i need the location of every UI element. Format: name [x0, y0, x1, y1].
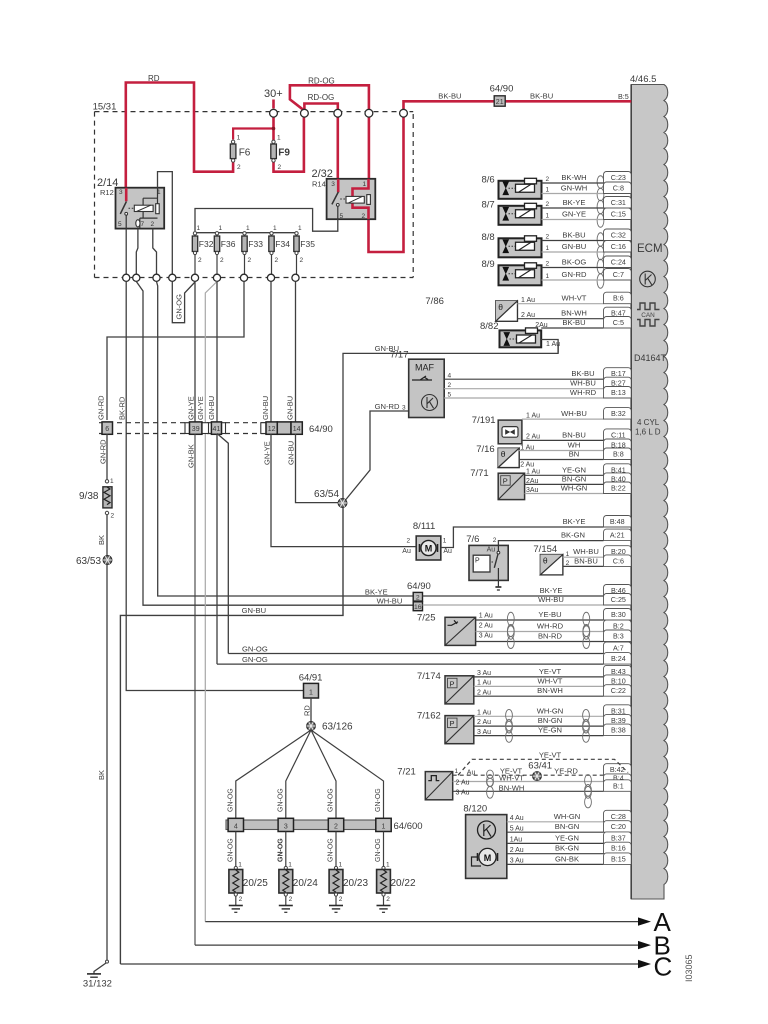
svg-text:BK-GN: BK-GN [561, 531, 585, 540]
svg-text:Au: Au [467, 770, 476, 777]
svg-text:MAF: MAF [415, 363, 435, 373]
wire YE-GN to ECM pin B:37 [507, 842, 604, 844]
wire GN-YE pin12 to 8/111 [271, 434, 416, 547]
wire YE-BU to ECM pin B:30 [476, 619, 604, 621]
svg-text:2: 2 [289, 896, 293, 903]
svg-text:GN-RD: GN-RD [562, 270, 587, 279]
svg-text:1: 1 [157, 189, 161, 196]
svg-text:63/126: 63/126 [322, 722, 353, 733]
svg-text:5: 5 [448, 391, 452, 398]
wire GN-OG to ECM pin A:7 [228, 653, 603, 655]
svg-text:GN-BU: GN-BU [242, 606, 266, 615]
svg-text:7/17: 7/17 [390, 350, 409, 361]
svg-text:BK-BU: BK-BU [530, 92, 553, 101]
svg-text:7/71: 7/71 [470, 468, 489, 479]
svg-text:WH-VT: WH-VT [499, 774, 524, 783]
svg-text:7/6: 7/6 [466, 534, 479, 545]
svg-text:2 Au: 2 Au [477, 719, 491, 726]
svg-text:1 Au: 1 Au [546, 341, 560, 348]
wire WH-BU to ECM pin B:32 [522, 418, 604, 420]
svg-text:7/154: 7/154 [533, 544, 557, 555]
svg-text:B:3: B:3 [613, 631, 624, 640]
svg-text:C:5: C:5 [613, 318, 624, 327]
svg-text:A:7: A:7 [613, 643, 624, 652]
svg-text:2Au: 2Au [535, 322, 548, 329]
svg-text:WH-BU: WH-BU [570, 379, 596, 388]
twisted pair marker [583, 709, 590, 733]
wire A output [205, 921, 638, 923]
svg-text:7/21: 7/21 [397, 767, 416, 778]
svg-text:2: 2 [546, 201, 550, 208]
svg-text:2: 2 [448, 382, 452, 389]
svg-text:GN-OG: GN-OG [227, 838, 234, 862]
wire relay 2/32 pin2 output to ECM B:5 [369, 117, 404, 253]
svg-text:31/132: 31/132 [83, 979, 112, 990]
twisted pair marker [585, 784, 592, 807]
wire C output [120, 963, 638, 965]
wire WH-GN to ECM pin B:22 [525, 493, 604, 495]
relay 2/14 pin7 bushing [136, 220, 140, 227]
fuse F36 [215, 232, 218, 235]
svg-text:2: 2 [362, 213, 366, 220]
svg-text:BN-WH: BN-WH [561, 309, 587, 318]
MAF flap icon [412, 376, 432, 380]
svg-text:GN-OG: GN-OG [328, 838, 335, 862]
svg-text:2: 2 [111, 513, 115, 520]
fuse supply bus [195, 232, 297, 234]
svg-text:YE-VT: YE-VT [539, 667, 562, 676]
ECM 4/46.5 module body [631, 85, 668, 900]
svg-text:CAN: CAN [641, 312, 655, 319]
svg-text:GN-BU: GN-BU [562, 242, 586, 251]
wire 2/14 pin7 down [136, 229, 138, 274]
connector bar 64/90 [99, 422, 303, 424]
svg-text:F34: F34 [275, 239, 290, 249]
svg-text:BK-BU: BK-BU [562, 231, 585, 240]
wire BN-WH to ECM pin B:1 [453, 790, 604, 792]
svg-text:BK-YE: BK-YE [563, 198, 586, 207]
svg-text:BN-WH: BN-WH [537, 686, 563, 695]
wire GN-OG jumper loop [172, 282, 195, 323]
svg-text:BK-YE: BK-YE [365, 588, 388, 597]
svg-text:GN-OG: GN-OG [175, 294, 184, 320]
svg-text:2: 2 [386, 896, 390, 903]
wire WH-RD to ECM pin B:2 [476, 631, 604, 633]
svg-text:RD-OG: RD-OG [308, 93, 335, 102]
svg-text:P: P [503, 477, 508, 486]
svg-text:2: 2 [300, 257, 304, 264]
svg-text:GN-YE: GN-YE [562, 210, 586, 219]
svg-text:2: 2 [546, 261, 550, 268]
wire col B BK-RD to 64/91 [126, 282, 303, 691]
twisted pair marker [583, 612, 590, 639]
wire WH-BU to ECM pin C:25 [423, 604, 604, 606]
svg-text:1 Au: 1 Au [521, 297, 535, 304]
twisted pair marker [597, 259, 604, 288]
svg-text:Au: Au [402, 548, 411, 555]
wire BN-GN to ECM pin B:39 [474, 725, 604, 727]
svg-text:BK-YE: BK-YE [540, 586, 563, 595]
wire pin41 straight GN-OG to B:24 [216, 434, 218, 665]
wire tap to fuse F6 [233, 129, 273, 140]
svg-text:WH-BU: WH-BU [573, 547, 599, 556]
wire GN-BK pin39 down to B [194, 434, 196, 946]
svg-text:WH-VT: WH-VT [562, 294, 587, 303]
svg-text:1 Au: 1 Au [520, 445, 534, 452]
svg-text:3Au: 3Au [526, 487, 539, 494]
svg-text:WH-VT: WH-VT [538, 676, 563, 685]
svg-text:BK-BU: BK-BU [438, 92, 461, 101]
relay 2/14 coil [134, 205, 153, 211]
svg-text:8/82: 8/82 [480, 321, 499, 332]
svg-text:1: 1 [546, 213, 550, 220]
svg-text:B:6: B:6 [613, 294, 624, 303]
wire 7/6 pin2 to A:21 [498, 541, 603, 546]
wire BK from 9/38 to ground 31/132 [106, 515, 108, 556]
svg-text:7/16: 7/16 [476, 444, 495, 455]
svg-text:C:32: C:32 [611, 230, 626, 239]
svg-text:1Au: 1Au [510, 837, 523, 844]
svg-text:2 Au: 2 Au [510, 847, 524, 854]
relay 2/32 switch [337, 179, 340, 193]
wire 8/111 pin1 to B:48 [441, 527, 604, 548]
wire col F GN-YE to pin39 [194, 282, 196, 423]
svg-text:BN-BU: BN-BU [562, 430, 586, 439]
svg-text:GN-OG: GN-OG [277, 838, 284, 862]
svg-text:B:31: B:31 [611, 706, 626, 715]
wire col D to BK-YE [157, 282, 414, 597]
wire BK-WH to ECM pin C:23 [542, 182, 604, 184]
twisted pair marker [507, 625, 514, 649]
svg-text:2: 2 [416, 594, 420, 601]
svg-text:7/25: 7/25 [417, 612, 436, 623]
svg-text:BK-GN: BK-GN [555, 844, 579, 853]
svg-text:63/41: 63/41 [528, 761, 552, 772]
svg-text:D4164T: D4164T [634, 353, 667, 363]
svg-text:P: P [475, 558, 480, 565]
svg-text:1,6 L D: 1,6 L D [635, 428, 661, 437]
svg-text:1: 1 [339, 862, 343, 869]
nodes on fusebox bottom edge [123, 274, 130, 281]
wire GN-RD 63/54 to MAF pin3 [346, 411, 409, 500]
svg-text:θ: θ [501, 449, 506, 459]
svg-text:20/24: 20/24 [293, 878, 318, 889]
wire BK-YE to ECM pin C:31 [542, 207, 604, 209]
wire BN-WH to ECM pin C:22 [474, 695, 604, 697]
svg-text:B:37: B:37 [611, 833, 626, 842]
wire 8/82 pin1 [541, 340, 558, 353]
svg-text:GN-OG: GN-OG [242, 645, 268, 654]
wire YE-GN to ECM pin B:41 [525, 474, 604, 476]
svg-text:1: 1 [197, 225, 201, 232]
svg-text:R14: R14 [312, 180, 326, 189]
wire GN-BU 63/54 down to C [120, 508, 343, 965]
wire WH-GN to ECM pin C:28 [507, 821, 604, 823]
twisted pair marker [487, 770, 494, 787]
svg-text:B:13: B:13 [611, 388, 626, 397]
svg-text:64/90: 64/90 [490, 84, 514, 95]
wire GN-OG to ECM pin B:24 [217, 663, 604, 665]
svg-text:BN-RD: BN-RD [538, 632, 563, 641]
svg-text:ECM: ECM [637, 243, 663, 255]
svg-text:1: 1 [219, 225, 223, 232]
svg-text:BK: BK [97, 770, 106, 780]
svg-text:GN-OG: GN-OG [227, 788, 234, 812]
wire relay 2/32 pin3 feed [336, 117, 339, 194]
svg-text:4 Au: 4 Au [510, 815, 524, 822]
svg-text:C:31: C:31 [611, 198, 626, 207]
svg-text:F35: F35 [300, 239, 315, 249]
svg-text:7/174: 7/174 [417, 671, 441, 682]
twisted pair marker [506, 719, 513, 742]
wire BN-BU to ECM pin C:6 [563, 565, 604, 567]
svg-text:GN-RD: GN-RD [98, 439, 107, 464]
wire BK-BU to ECM pin C:32 [542, 240, 604, 242]
wire RD-OG upper [290, 85, 369, 111]
svg-text:2 Au: 2 Au [456, 780, 470, 787]
svg-text:YE-BU: YE-BU [538, 610, 561, 619]
svg-text:Au: Au [443, 548, 452, 555]
wire BN-WH to ECM pin B:47 [517, 318, 603, 320]
svg-text:WH-RD: WH-RD [537, 622, 564, 631]
svg-text:2: 2 [546, 234, 550, 241]
wire WH to ECM pin B:18 [519, 450, 603, 452]
svg-text:1: 1 [386, 862, 390, 869]
svg-text:7/162: 7/162 [417, 711, 441, 722]
svg-text:C:16: C:16 [611, 242, 626, 251]
svg-text:C:7: C:7 [613, 270, 624, 279]
svg-text:BK-BU: BK-BU [562, 318, 585, 327]
svg-text:2: 2 [339, 896, 343, 903]
svg-text:2: 2 [334, 824, 338, 831]
connector bar 64/600 [226, 820, 391, 830]
svg-text:B:48: B:48 [610, 517, 625, 526]
svg-text:1: 1 [363, 181, 367, 188]
svg-text:C:11: C:11 [611, 430, 626, 439]
dashed YE-VT bypass [458, 759, 628, 775]
twisted pair marker [583, 719, 590, 742]
svg-text:1: 1 [455, 768, 459, 775]
svg-text:8/7: 8/7 [482, 200, 495, 211]
svg-text:64/90: 64/90 [309, 424, 333, 435]
svg-text:4: 4 [448, 372, 452, 379]
svg-text:8/120: 8/120 [463, 804, 487, 815]
svg-text:1 Au: 1 Au [526, 469, 540, 476]
svg-text:15/31: 15/31 [93, 102, 117, 113]
svg-text:R12: R12 [100, 188, 114, 197]
svg-text:θ: θ [498, 302, 503, 312]
wire col J GN-BU to pin12 [270, 282, 272, 423]
svg-text:64/91: 64/91 [299, 673, 323, 684]
wire GN-RD to ECM pin C:7 [542, 279, 604, 281]
svg-text:4/46.5: 4/46.5 [630, 74, 656, 85]
svg-text:GN-OG: GN-OG [375, 788, 382, 812]
wire pin41 split GN-OG to A:7 [217, 434, 228, 654]
svg-text:I03065: I03065 [684, 954, 694, 982]
svg-text:GN-YE: GN-YE [196, 396, 205, 420]
svg-text:BN-BU: BN-BU [574, 556, 598, 565]
wire RD-OG lower [304, 104, 337, 111]
wire GN-RD pin6 to 9/38 [106, 434, 108, 480]
wire BN-RD to ECM pin B:3 [476, 641, 604, 643]
svg-text:1 Au: 1 Au [526, 413, 540, 420]
svg-text:5 Au: 5 Au [510, 825, 524, 832]
svg-text:1 Au: 1 Au [477, 680, 491, 687]
svg-text:4: 4 [234, 824, 238, 831]
wire GN-YE to ECM pin C:15 [542, 219, 604, 221]
svg-text:YE-GN: YE-GN [562, 465, 586, 474]
svg-text:20/23: 20/23 [343, 878, 368, 889]
svg-text:2 Au: 2 Au [479, 622, 493, 629]
svg-text:1 Au: 1 Au [479, 613, 493, 620]
svg-text:B:15: B:15 [611, 854, 626, 863]
svg-text:2 Au: 2 Au [477, 689, 491, 696]
svg-text:1: 1 [277, 135, 281, 142]
svg-text:YE-VT: YE-VT [539, 751, 562, 760]
svg-text:M: M [484, 853, 492, 863]
fuse F33 [243, 232, 246, 235]
wire GN-RD horizontal link [107, 282, 244, 421]
svg-text:F9: F9 [278, 148, 290, 159]
svg-text:1: 1 [246, 225, 250, 232]
svg-text:F32: F32 [199, 239, 214, 249]
svg-text:3 Au: 3 Au [510, 858, 524, 865]
svg-text:2 Au: 2 Au [526, 434, 540, 441]
svg-text:8/9: 8/9 [482, 259, 495, 270]
wire B output [195, 944, 638, 946]
svg-text:2: 2 [248, 257, 252, 264]
svg-text:GN-OG: GN-OG [277, 788, 284, 812]
svg-text:B:2: B:2 [613, 621, 624, 630]
svg-text:1: 1 [309, 689, 313, 696]
svg-text:2: 2 [239, 896, 243, 903]
wire GN-BK to ECM pin B:15 [507, 863, 604, 865]
relay 2/32 coil circuit [353, 179, 369, 219]
svg-text:GN-YE: GN-YE [262, 441, 271, 465]
wire GN-BU 63/54 up to 8/82 [343, 344, 558, 499]
svg-text:1: 1 [298, 225, 302, 232]
svg-text:63/53: 63/53 [76, 556, 101, 567]
svg-text:64/90: 64/90 [407, 581, 431, 592]
svg-text:C:25: C:25 [611, 595, 626, 604]
svg-text:P: P [450, 719, 455, 728]
svg-text:GN-BK: GN-BK [555, 854, 579, 863]
twisted pair marker [487, 775, 494, 799]
wire BK-BU to ECM pin B:17 [444, 378, 603, 380]
wire GN-WH to ECM pin C:8 [542, 193, 604, 195]
svg-text:C:24: C:24 [611, 257, 626, 266]
wire BK-BU to ECM pin C:5 [541, 327, 603, 329]
svg-text:C:22: C:22 [611, 686, 626, 695]
svg-text:GN-OG: GN-OG [375, 838, 382, 862]
svg-text:2: 2 [407, 538, 411, 545]
svg-text:A:21: A:21 [610, 530, 625, 539]
svg-text:F36: F36 [221, 239, 236, 249]
wire col G light GN-YE [205, 282, 217, 922]
svg-text:2: 2 [278, 164, 282, 171]
svg-text:BN-WH: BN-WH [499, 783, 525, 792]
svg-text:F33: F33 [248, 239, 263, 249]
fuse F6 [230, 144, 236, 159]
nodes on fusebox top edge [270, 109, 278, 117]
svg-text:P: P [450, 679, 455, 688]
svg-text:20/22: 20/22 [391, 878, 416, 889]
svg-text:4 CYL: 4 CYL [637, 418, 660, 427]
svg-text:GN-OG: GN-OG [328, 788, 335, 812]
svg-text:16: 16 [414, 604, 422, 611]
svg-text:M: M [425, 544, 433, 554]
svg-text:F6: F6 [239, 148, 251, 159]
svg-text:B:8: B:8 [613, 449, 624, 458]
fuse F34 [270, 232, 273, 235]
svg-text:BK-YE: BK-YE [563, 517, 586, 526]
svg-text:1: 1 [546, 273, 550, 280]
svg-text:2: 2 [237, 164, 241, 171]
wire WH-GN to ECM pin B:31 [474, 715, 604, 717]
svg-text:2: 2 [275, 257, 279, 264]
wire WH-BU to ECM pin B:20 [563, 556, 604, 558]
svg-text:B:38: B:38 [611, 726, 626, 735]
wire BN-GN to ECM pin B:40 [525, 483, 604, 485]
twisted pair marker [585, 775, 592, 799]
wire 2/14 pin5 down [125, 229, 127, 274]
svg-text:Au: Au [487, 547, 496, 554]
svg-text:41: 41 [213, 426, 221, 433]
svg-text:GN-BU: GN-BU [286, 396, 295, 420]
svg-text:C:23: C:23 [611, 173, 626, 182]
svg-text:2: 2 [566, 560, 570, 567]
svg-text:BK-WH: BK-WH [561, 173, 586, 182]
svg-text:WH-BU: WH-BU [538, 595, 564, 604]
svg-text:RD: RD [303, 705, 312, 716]
svg-text:B:32: B:32 [611, 409, 626, 418]
svg-text:2: 2 [493, 537, 497, 544]
ground 31/132 [106, 960, 109, 963]
svg-text:1: 1 [566, 551, 570, 558]
CAN symbol [637, 303, 660, 310]
svg-text:C:28: C:28 [611, 812, 626, 821]
svg-text:1: 1 [443, 538, 447, 545]
svg-text:WH: WH [568, 441, 581, 450]
svg-text:YE-RD: YE-RD [554, 766, 578, 775]
wire RD feed to relay 2/14 [126, 83, 233, 202]
svg-text:30+: 30+ [264, 88, 283, 100]
svg-text:GN-RD: GN-RD [375, 402, 400, 411]
svg-text:WH-BU: WH-BU [377, 597, 403, 606]
svg-text:1: 1 [546, 187, 550, 194]
svg-text:GN-YE: GN-YE [186, 396, 195, 420]
svg-text:5: 5 [340, 213, 344, 220]
svg-text:2: 2 [546, 176, 550, 183]
wire BK-GN to ECM pin B:16 [507, 853, 604, 855]
svg-text:1: 1 [273, 225, 277, 232]
fuse box 15/31 dashed boundary [95, 111, 414, 113]
twisted pair marker [597, 200, 604, 227]
svg-text:3 Au: 3 Au [477, 729, 491, 736]
svg-text:8/6: 8/6 [482, 175, 495, 186]
svg-text:WH-RD: WH-RD [570, 388, 597, 397]
wire 7/21 pin1 dashed YE-VT [453, 774, 604, 776]
fuse F9 [271, 144, 277, 159]
twisted pair marker [506, 709, 513, 733]
wire YE-GN to ECM pin B:38 [474, 735, 604, 737]
svg-text:1: 1 [546, 245, 550, 252]
svg-text:YE-GN: YE-GN [555, 833, 579, 842]
twisted pair marker [597, 176, 604, 201]
svg-text:θ: θ [543, 556, 548, 566]
wire BN-GN to ECM pin C:20 [507, 831, 604, 833]
relay 2/14 switch [125, 188, 128, 202]
